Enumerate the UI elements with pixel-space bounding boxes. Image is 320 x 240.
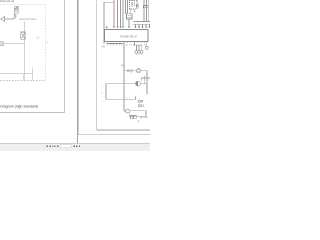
- wire main left vertical: [103, 2, 105, 43]
- wire to pump assembly: [106, 98, 136, 100]
- fitting circle FC1: [138, 100, 140, 102]
- solenoid valve SV1 coil: [15, 6, 18, 9]
- fuse element F1: [144, 5, 147, 7]
- wire row to motor: [124, 70, 130, 72]
- wire pump feed corner: [141, 78, 150, 81]
- spring below valve: [14, 13, 16, 19]
- fitting block FB2: [141, 105, 143, 107]
- lamp base ticks: [136, 53, 142, 55]
- check valve CV (triangle): [1, 17, 5, 22]
- wire motor to right riser: [141, 71, 147, 94]
- fitting circle FC2: [141, 101, 143, 103]
- svg-text:B6: B6: [144, 44, 146, 46]
- wire valve row: [143, 116, 148, 118]
- solenoid valve SV1 body: [14, 9, 18, 13]
- lamp L3: [140, 50, 143, 53]
- bottom toolbar: [0, 143, 150, 151]
- wire main down vertical: [123, 41, 125, 111]
- svg-text:RB: RB: [102, 46, 106, 49]
- fuse rails: [144, 0, 149, 22]
- wire K1 to D1: [129, 9, 131, 14]
- right page (extends off right/bottom-cut): [77, 0, 168, 145]
- relay unit box U1: [105, 29, 149, 41]
- lamp L1: [135, 50, 138, 53]
- svg-text:Diagram (high standard): Diagram (high standard): [0, 105, 38, 109]
- wire valve port to filter column: [24, 21, 26, 32]
- svg-text:t3: t3: [103, 100, 106, 103]
- wire filter to bus: [24, 39, 26, 44]
- svg-text:B5: B5: [140, 44, 142, 46]
- switch S1 ticks: [127, 70, 128, 72]
- wire horizontal bus: [3, 43, 25, 45]
- filter F1 (box with X): [21, 32, 25, 39]
- pump PM (circle, left half dark): [136, 81, 141, 86]
- wire pump row: [106, 83, 147, 85]
- connector arrow A1: [133, 9, 135, 11]
- right page schematic svg (local x = image x - 77): [77, 0, 150, 137]
- junction tick T1: [123, 65, 125, 67]
- wire diode to terminal: [128, 19, 130, 26]
- sheet outer frame: [78, 0, 150, 134]
- wire stub into relay box: [106, 28, 108, 30]
- gap ticks: [140, 116, 141, 119]
- svg-text:1: 1: [47, 41, 49, 44]
- rail segment right: [143, 76, 145, 84]
- svg-text:t1: t1: [101, 85, 104, 88]
- wire harness red lead: [113, 0, 115, 26]
- svg-text:t2: t2: [101, 92, 104, 95]
- terminal dots row: [106, 26, 150, 28]
- pin stubs under box: [127, 41, 145, 43]
- svg-text:B4: B4: [137, 44, 139, 46]
- fuse tap F2: [136, 0, 138, 5]
- svg-text:B2: B2: [130, 44, 132, 46]
- wire bus B2: [133, 23, 151, 25]
- wire check valve to valve: [5, 18, 14, 20]
- indicator circle I1: [130, 70, 133, 73]
- relay K1 (dashed box): [130, 1, 137, 10]
- diode block D1: [127, 14, 133, 19]
- svg-text:Solenoid val: Solenoid val: [0, 0, 15, 3]
- wire bus B1: [134, 21, 151, 23]
- wire stubs to terminals: [136, 24, 150, 26]
- sheet frame border: [97, 0, 150, 130]
- wire left drop: [105, 84, 107, 100]
- wire stub to dashed border: [24, 74, 33, 81]
- svg-text:a: a: [121, 80, 123, 82]
- wire short riser: [32, 67, 34, 73]
- motor M1 (double circle): [136, 69, 140, 73]
- pin labels under box: [126, 44, 146, 46]
- stub riser at junction: [135, 97, 137, 100]
- wire right branch: [146, 41, 148, 46]
- wire: [132, 70, 136, 72]
- left page (partially off-screen left/top): [0, 0, 65, 113]
- wire lamp feed: [134, 41, 141, 50]
- wire top-left horizontal: [104, 1, 114, 3]
- pump P (partially cut at edge): [0, 42, 3, 46]
- svg-text:Solenoid Valve: Solenoid Valve: [19, 17, 37, 21]
- fitting circle FC3: [138, 105, 140, 107]
- svg-text:B1: B1: [126, 44, 128, 46]
- svg-text:B3: B3: [133, 44, 135, 46]
- inline valves V1 V2: [131, 115, 133, 118]
- wire harness verticals: [118, 0, 124, 26]
- lamp L4: [145, 46, 148, 49]
- reservoir box RB1: [129, 111, 146, 117]
- aux pump AP: [126, 109, 130, 113]
- drain mark: [138, 120, 140, 122]
- dashed enclosure box: [0, 4, 45, 80]
- wire bottom horizontal: [0, 73, 33, 75]
- wire to aux pump: [124, 110, 126, 112]
- wire vertical down: [24, 44, 26, 74]
- ground bus GB: [107, 42, 123, 44]
- svg-text:L2: L2: [36, 36, 40, 40]
- svg-text:POWER RELAY: POWER RELAY: [120, 36, 138, 39]
- left page schematic svg: [0, 0, 64, 112]
- svg-text:17: 17: [121, 64, 124, 67]
- wires into diodes: [126, 0, 128, 14]
- lamp L2: [138, 50, 141, 53]
- pager controls: [0, 143, 150, 150]
